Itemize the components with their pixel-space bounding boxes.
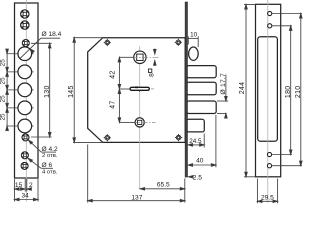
centerline faceplate view	[25, 0, 27, 202]
cylinder ellipse	[189, 47, 199, 60]
svg-text:25: 25	[0, 113, 6, 121]
dim 65.5	[140, 178, 185, 202]
faceplate edge bar	[185, 2, 187, 177]
svg-text:15: 15	[15, 182, 23, 189]
svg-text:4 отв.: 4 отв.	[42, 169, 58, 175]
svg-text:2.5: 2.5	[193, 175, 202, 182]
svg-text:2 отв.: 2 отв.	[42, 153, 58, 159]
label D4.2 2 otv with leader	[27, 139, 56, 152]
svg-text:8: 8	[149, 73, 156, 77]
dim 40 (bolts)	[188, 115, 216, 168]
strike plate outline	[256, 4, 281, 177]
svg-text:24.5: 24.5	[189, 138, 202, 145]
corner screw TR	[175, 39, 182, 46]
dim square 8	[154, 49, 157, 67]
screw hole lower A	[22, 134, 29, 141]
svg-text:25: 25	[0, 95, 6, 103]
svg-text:Ø 18.4: Ø 18.4	[42, 31, 62, 38]
follower 2 (lower)	[135, 118, 144, 127]
svg-text:40: 40	[196, 157, 204, 164]
svg-text:244: 244	[239, 82, 246, 95]
dim 137	[88, 145, 185, 203]
screw hole mid	[22, 40, 29, 47]
svg-text:65.5: 65.5	[157, 181, 170, 188]
dim 244	[244, 5, 256, 177]
follower 2 horizontal centerline	[131, 121, 156, 123]
screw hole top 1	[21, 10, 29, 18]
keyhole slot (edge view)	[130, 87, 149, 90]
hole no.5	[18, 119, 32, 133]
dim 180	[289, 26, 292, 155]
hole no.2	[18, 65, 32, 79]
svg-text:130: 130	[44, 85, 51, 98]
svg-text:137: 137	[131, 194, 142, 201]
svg-text:210: 210	[295, 86, 302, 99]
label square 8	[148, 69, 151, 72]
dim 24.5 (latch)	[188, 134, 204, 148]
screw hole lower B	[21, 152, 28, 159]
bottom dims of faceplate: extensions	[15, 179, 39, 202]
corner screw TL	[104, 39, 111, 46]
dimension 130	[31, 43, 52, 137]
dim 2	[27, 188, 32, 190]
hole D18.4 no.1	[18, 47, 32, 61]
strike plate screw 1	[268, 11, 272, 15]
bolt 2	[187, 82, 217, 95]
follower 1 horizontal centerline	[132, 56, 159, 58]
svg-text:25: 25	[0, 77, 6, 85]
dim 10 (cylinder)	[188, 36, 198, 47]
screw hole top 2	[21, 21, 29, 29]
label D18.4 with leader	[20, 38, 60, 58]
centerline strike plate view	[267, 0, 269, 203]
dim 29.5	[257, 179, 277, 204]
latch bolt	[187, 119, 205, 132]
dimension 145	[73, 38, 103, 143]
svg-text:145: 145	[68, 85, 75, 98]
svg-text:Ø 17.7: Ø 17.7	[220, 73, 227, 95]
hole no.3	[18, 83, 32, 97]
dim 42 / 47 chain	[118, 57, 135, 122]
dim D17.7 (bolt)	[217, 75, 228, 119]
svg-text:25: 25	[0, 59, 6, 67]
label D6 4 otv with leader	[27, 157, 53, 168]
dim 15	[15, 188, 26, 190]
svg-text:42: 42	[109, 70, 116, 78]
svg-text:29.5: 29.5	[261, 195, 274, 202]
svg-text:47: 47	[109, 100, 116, 108]
bolt 3	[187, 101, 217, 114]
strike plate slot	[258, 37, 278, 142]
svg-text:Ø 4.2: Ø 4.2	[42, 146, 58, 153]
strike plate screw 3	[267, 152, 271, 156]
lock body outline	[88, 38, 186, 143]
corner screw BL	[104, 134, 111, 141]
follower 1 (square spindle)	[134, 51, 146, 63]
centerline lock body view	[139, 46, 141, 189]
screw hole lower C	[21, 162, 28, 169]
hole centerline extensions	[6, 54, 33, 126]
hole no.4	[18, 101, 32, 115]
svg-text:Ø 6: Ø 6	[42, 162, 53, 169]
svg-text:2: 2	[29, 182, 33, 189]
corner screw BR	[175, 134, 182, 141]
svg-text:34: 34	[22, 193, 30, 200]
screw extension lines	[272, 14, 302, 166]
strike plate screw 2	[268, 24, 272, 28]
svg-text:180: 180	[285, 86, 292, 99]
dimension chain 25x4	[6, 49, 9, 131]
bolt 1	[187, 66, 217, 78]
dim 210	[300, 14, 303, 166]
strike plate screw 4	[267, 164, 271, 168]
label 2.5 (plate thickness)	[188, 176, 193, 179]
dim 34	[15, 199, 39, 201]
svg-text:10: 10	[190, 31, 198, 38]
faceplate front view outline	[15, 3, 39, 178]
